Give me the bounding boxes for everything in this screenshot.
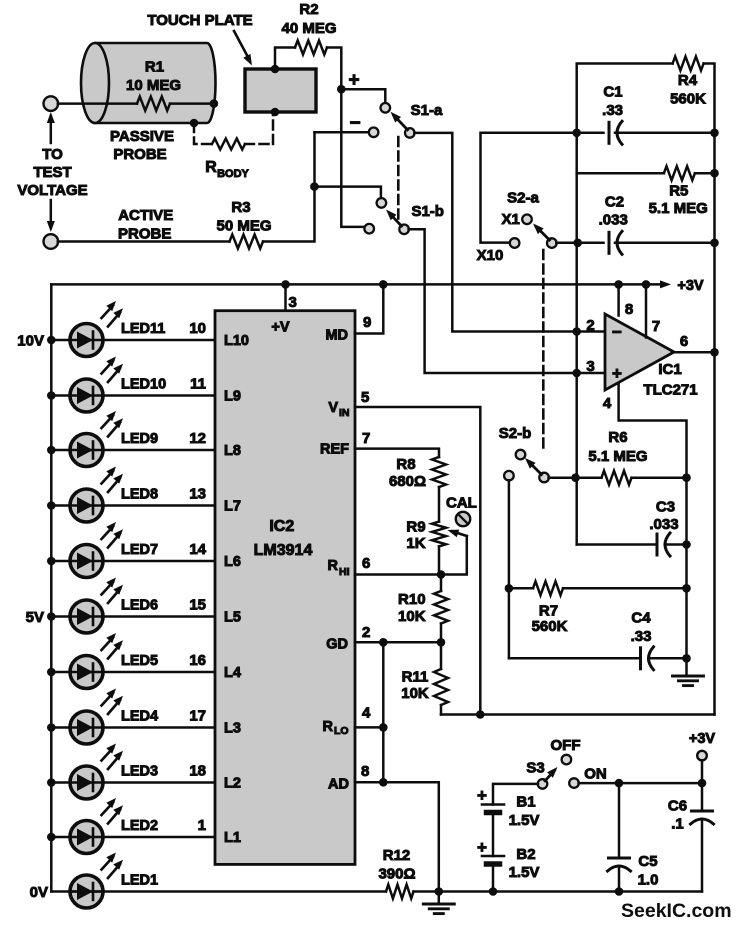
svg-text:R7: R7 <box>539 603 558 620</box>
svg-text:R5: R5 <box>669 183 688 200</box>
svg-text:11: 11 <box>190 376 206 393</box>
LED LED10 <box>70 379 103 412</box>
svg-text:+: + <box>348 70 359 91</box>
switch S1-a contacts <box>381 103 391 113</box>
R9 wiper arrow <box>442 536 467 575</box>
wire feedback bottom <box>441 713 715 716</box>
wire R8 to R9 <box>438 487 441 522</box>
wire B2 to ground rail <box>492 864 495 892</box>
svg-text:L4: L4 <box>224 665 241 681</box>
wire X10 riser to C1 <box>481 133 604 243</box>
svg-text:C5: C5 <box>638 853 657 870</box>
switch S2-b contact top <box>516 450 526 460</box>
node bus LED4 <box>47 723 56 732</box>
battery B2 <box>482 855 504 858</box>
wire LED8 row <box>51 504 215 507</box>
switch S1-b wiper arrow <box>390 213 402 226</box>
node pin2 <box>572 327 581 336</box>
svg-text:8: 8 <box>625 301 633 318</box>
wire C4 right <box>650 657 687 660</box>
svg-text:LED4: LED4 <box>121 709 158 725</box>
node R7 right <box>682 584 691 593</box>
svg-text:C1: C1 <box>603 84 622 101</box>
CAL knob <box>456 512 470 526</box>
wire R11 to feedback <box>440 705 443 715</box>
svg-text:LED9: LED9 <box>121 431 158 447</box>
node feedback VIN <box>476 710 485 719</box>
svg-text:GD: GD <box>326 637 348 653</box>
resistor R3 zigzag <box>230 235 264 249</box>
IC2 pin 8 AD wire <box>355 782 439 891</box>
node rail pin7 <box>642 280 651 289</box>
IC U2 LM3914 body <box>215 311 355 865</box>
switch S3 wiper arrow <box>545 771 555 781</box>
svg-text:10K: 10K <box>401 685 429 702</box>
wire S3 to battery B1 <box>493 784 538 805</box>
wire LED3 row <box>51 781 215 784</box>
LED LED2 <box>70 821 103 854</box>
node touch plate top <box>271 65 280 74</box>
terminal passive probe input <box>44 96 59 111</box>
svg-text:+: + <box>612 364 622 383</box>
node bus LED2 <box>47 833 56 842</box>
wire C1 right <box>615 132 715 135</box>
switch S2-a contact X1 <box>522 215 532 225</box>
wire LED10 row <box>51 394 215 397</box>
svg-text:10: 10 <box>189 320 206 337</box>
dashed gang link S2 <box>542 250 545 451</box>
svg-text:680Ω: 680Ω <box>389 473 426 490</box>
resistor R6 zigzag <box>602 471 632 485</box>
svg-text:50 MEG: 50 MEG <box>216 218 271 235</box>
switch S2-a contact X10 <box>510 238 520 248</box>
svg-text:R1: R1 <box>145 59 164 76</box>
wire R5 left <box>577 172 664 175</box>
svg-text:LM3914: LM3914 <box>254 542 313 559</box>
wire LED11 row <box>51 339 215 342</box>
svg-text:ON: ON <box>584 766 607 783</box>
wire GD to AD riser <box>382 642 385 782</box>
switch S1-a wiper arrow <box>394 116 408 130</box>
svg-text:LED8: LED8 <box>121 487 158 503</box>
wire inverting net riser <box>575 133 578 545</box>
svg-text:L5: L5 <box>224 610 241 626</box>
svg-text:LED10: LED10 <box>121 377 166 393</box>
wire S2-a wiper to C2 <box>556 242 603 245</box>
svg-text:SeekIC.com: SeekIC.com <box>621 900 732 922</box>
svg-text:S3: S3 <box>526 760 544 777</box>
svg-text:1.5V: 1.5V <box>509 812 540 829</box>
wire C2 right <box>615 242 715 245</box>
svg-text:TLC271: TLC271 <box>643 382 697 399</box>
LED LED11 <box>70 324 103 357</box>
svg-text:L2: L2 <box>224 776 241 792</box>
ground near C4 <box>685 658 688 676</box>
svg-text:TOUCH PLATE: TOUCH PLATE <box>147 12 252 29</box>
wire C3 left <box>577 543 655 546</box>
wire C6 bottom <box>701 819 704 892</box>
svg-text:L7: L7 <box>224 499 241 515</box>
LED LED4 <box>70 711 103 744</box>
wire touch plate to R2 <box>275 48 295 70</box>
wire R10 to GD junction <box>440 624 443 643</box>
svg-text:R: R <box>328 558 339 574</box>
wire ON to +3V column <box>579 782 703 785</box>
node C3 right <box>682 540 691 549</box>
svg-text:1.5V: 1.5V <box>509 864 540 881</box>
svg-text:13: 13 <box>189 486 206 503</box>
svg-text:R6: R6 <box>608 429 627 446</box>
wire LED9 row <box>51 449 215 452</box>
LED LED7 <box>70 545 103 578</box>
node bus LED5 <box>47 668 56 677</box>
switch S2-a wiper contact <box>547 238 557 248</box>
resistor R2 zigzag <box>295 41 327 55</box>
node rail pin3 <box>281 280 290 289</box>
wire B1 to B2 <box>492 813 495 857</box>
svg-text:C3: C3 <box>656 499 675 516</box>
svg-text:+3V: +3V <box>689 731 716 747</box>
node active junction <box>310 182 319 191</box>
capacitor C3 <box>656 534 659 555</box>
svg-text:X10: X10 <box>477 247 504 264</box>
svg-text:+3V: +3V <box>677 278 704 294</box>
svg-text:0V: 0V <box>30 884 48 901</box>
resistor R1 zigzag <box>137 97 170 111</box>
svg-text:C4: C4 <box>631 610 651 627</box>
node bus LED8 <box>47 501 56 510</box>
wire R4 branch <box>577 64 673 133</box>
wire R1 to probe tip <box>170 102 214 105</box>
node GD riser <box>379 638 388 647</box>
svg-text:7: 7 <box>362 430 370 447</box>
IC1 pin 8 wire <box>617 284 620 315</box>
resistor R12 zigzag <box>386 885 414 899</box>
switch S3 wiper contact <box>538 779 548 789</box>
dashed gang link S1 <box>397 137 400 221</box>
wire active junction to S1-b top contact <box>315 187 381 199</box>
resistor R8 zigzag <box>432 457 446 487</box>
node RLO <box>379 723 388 732</box>
cylinder passive probe body R1 <box>95 43 216 123</box>
wire C3 right <box>666 543 687 546</box>
svg-text:40 MEG: 40 MEG <box>281 20 336 37</box>
node C2 junction <box>573 239 582 248</box>
svg-text:4: 4 <box>603 395 612 412</box>
svg-text:3: 3 <box>289 294 297 311</box>
svg-text:LED3: LED3 <box>121 764 158 780</box>
svg-text:6: 6 <box>680 333 688 350</box>
svg-text:−: − <box>612 323 622 342</box>
svg-text:1K: 1K <box>406 535 425 552</box>
wire LED6 row <box>51 615 215 618</box>
resistor R11 zigzag <box>434 669 448 705</box>
wire C6 column <box>701 783 704 811</box>
svg-text:R: R <box>205 159 217 176</box>
wire R4 right <box>704 64 715 133</box>
svg-text:MD: MD <box>325 328 348 344</box>
svg-text:2: 2 <box>362 624 370 641</box>
svg-text:−: − <box>349 113 360 134</box>
wire +V rail <box>51 283 646 286</box>
svg-text:1: 1 <box>198 817 206 834</box>
svg-text:PASSIVE: PASSIVE <box>110 128 174 145</box>
svg-text:R2: R2 <box>299 1 318 18</box>
svg-text:+V: +V <box>271 320 289 336</box>
node touch plate bottom <box>271 108 280 117</box>
wire S1-a output to IC1 pin 2 <box>414 133 605 332</box>
node +3V junction <box>698 779 707 788</box>
+3V arrow top <box>646 283 663 286</box>
wire active probe to R3 <box>58 240 230 243</box>
svg-text:+: + <box>477 786 487 805</box>
svg-text:ACTIVE: ACTIVE <box>118 207 173 224</box>
svg-text:14: 14 <box>189 541 206 558</box>
svg-text:R8: R8 <box>396 456 415 473</box>
node bus LED7 <box>47 557 56 566</box>
svg-text:R10: R10 <box>398 591 426 608</box>
svg-text:PROBE: PROBE <box>118 226 171 243</box>
node rail MD <box>379 280 388 289</box>
resistor R5 zigzag <box>664 166 695 180</box>
svg-text:R3: R3 <box>231 199 250 216</box>
wire minus to S1-a left contact <box>315 131 369 134</box>
node C5 top <box>615 779 624 788</box>
svg-text:R9: R9 <box>406 519 425 536</box>
wire R3 to minus riser <box>263 132 315 241</box>
IC2 pin 5 VIN wire <box>355 407 480 715</box>
wire LED2 row <box>51 836 215 839</box>
resistor R10 zigzag <box>434 591 448 624</box>
svg-text:LO: LO <box>334 725 349 737</box>
svg-text:560K: 560K <box>532 618 568 635</box>
node rail pin8 <box>614 280 623 289</box>
svg-text:LED1: LED1 <box>121 873 158 889</box>
svg-text:5.1 MEG: 5.1 MEG <box>588 448 647 465</box>
svg-text:R11: R11 <box>402 669 429 686</box>
svg-text:TEST: TEST <box>33 164 71 181</box>
svg-text:R4: R4 <box>678 72 698 89</box>
LED LED1 <box>70 875 103 908</box>
touch plate <box>245 69 316 112</box>
label TO TEST VOLTAGE with arrows <box>50 116 53 143</box>
svg-text:7: 7 <box>652 318 660 335</box>
wire R9 to RHI junction <box>438 546 441 574</box>
node battery bottom <box>489 887 498 896</box>
node R6 left <box>571 473 580 482</box>
wire R11 top <box>440 642 443 669</box>
svg-text:R12: R12 <box>383 847 411 864</box>
node bus LED9 <box>47 446 56 455</box>
svg-text:5: 5 <box>361 389 369 406</box>
svg-text:IC2: IC2 <box>269 518 294 535</box>
svg-text:LED11: LED11 <box>121 321 165 337</box>
svg-text:PROBE: PROBE <box>113 146 166 163</box>
terminal +3V bottom <box>697 751 707 761</box>
node RHI junction <box>437 570 446 579</box>
node bus LED3 <box>47 778 56 787</box>
svg-text:L8: L8 <box>224 443 241 459</box>
switch S3 contact ON <box>569 778 579 788</box>
node C4 right <box>682 654 691 663</box>
wire R2 to plus node <box>327 48 341 90</box>
node C2 right <box>710 239 719 248</box>
svg-text:S1-a: S1-a <box>411 102 443 119</box>
node probe shell <box>190 119 199 128</box>
svg-text:5.1 MEG: 5.1 MEG <box>649 200 708 217</box>
capacitor C4 <box>639 648 642 669</box>
ground main <box>438 892 441 905</box>
node C5 bottom <box>615 887 624 896</box>
svg-text:4: 4 <box>362 705 371 722</box>
svg-text:AD: AD <box>328 777 349 793</box>
wire LED1 row 0V <box>51 890 386 893</box>
wire R6 right <box>632 476 687 479</box>
IC2 pin 4 RLO wire <box>355 726 383 729</box>
IC1 pin 7 wire <box>645 284 648 337</box>
switch S3 contact OFF <box>562 755 572 765</box>
wire LED5 row <box>51 671 215 674</box>
wire RHI junction to R10 <box>440 575 443 592</box>
LED LED5 <box>70 656 103 689</box>
svg-text:12: 12 <box>189 430 206 447</box>
wire R5 right <box>695 172 715 175</box>
switch S2-b contact left <box>504 471 514 481</box>
IC1 pin 4 wire <box>619 383 687 478</box>
node C1 left <box>572 129 581 138</box>
node probe tip <box>210 99 219 108</box>
wire R7 right <box>563 587 687 590</box>
node pin6 rail <box>710 348 719 357</box>
wire bottom 0V <box>414 890 703 893</box>
svg-text:IN: IN <box>339 407 350 419</box>
switch S2-b wiper contact <box>539 473 549 483</box>
wire plus node to S1-a top contact <box>341 89 385 103</box>
svg-text:3: 3 <box>586 358 594 375</box>
LED LED3 <box>70 766 103 799</box>
LED LED9 <box>70 434 103 467</box>
wire C5 column <box>618 783 621 858</box>
svg-text:6: 6 <box>362 555 370 572</box>
wire plus to S1-b left contact <box>341 89 365 229</box>
svg-text:S2-a: S2-a <box>507 190 539 207</box>
svg-text:C2: C2 <box>605 194 624 211</box>
svg-text:OFF: OFF <box>551 737 581 754</box>
IC2 pin 9 MD wire <box>355 284 383 333</box>
svg-text:.033: .033 <box>599 212 628 229</box>
svg-text:S2-b: S2-b <box>499 425 532 442</box>
capacitor C2 <box>608 232 611 253</box>
svg-text:B2: B2 <box>516 846 535 863</box>
svg-text:18: 18 <box>189 763 206 780</box>
switch S1-b contacts <box>377 198 387 208</box>
svg-text:8: 8 <box>361 763 369 780</box>
svg-text:C6: C6 <box>668 798 687 815</box>
resistor R7 zigzag <box>533 581 563 595</box>
svg-text:.33: .33 <box>631 628 652 645</box>
svg-text:L6: L6 <box>224 554 241 570</box>
svg-text:LED5: LED5 <box>121 653 158 669</box>
svg-text:5V: 5V <box>26 609 44 626</box>
wire C4 left <box>509 657 639 660</box>
node R5 right <box>710 169 719 178</box>
svg-text:CAL: CAL <box>446 495 477 512</box>
potentiometer R9 zigzag <box>432 522 446 547</box>
switch S2-b wiper arrow <box>529 462 542 475</box>
svg-text:.1: .1 <box>671 816 684 833</box>
svg-text:17: 17 <box>189 708 206 725</box>
node AD <box>379 778 388 787</box>
svg-text:2: 2 <box>586 317 594 334</box>
terminal active probe input <box>44 234 59 249</box>
svg-text:.33: .33 <box>602 102 623 119</box>
svg-text:IC1: IC1 <box>658 361 681 378</box>
svg-text:L1: L1 <box>224 830 241 846</box>
wire right rail <box>713 133 716 715</box>
svg-text:1.0: 1.0 <box>638 872 659 889</box>
wire LED7 row <box>51 560 215 563</box>
wire pin4 column <box>685 478 688 659</box>
svg-text:LED2: LED2 <box>121 818 158 834</box>
svg-text:B1: B1 <box>516 794 535 811</box>
node R6 right <box>682 473 691 482</box>
IC2 pin 7 REF wire <box>355 449 439 457</box>
IC2 pin 6 RHI wire <box>355 573 441 576</box>
capacitor C6 <box>692 810 713 813</box>
svg-text:LED7: LED7 <box>121 542 158 558</box>
svg-text:16: 16 <box>189 652 206 669</box>
node R7 left <box>505 584 514 593</box>
svg-text:560K: 560K <box>670 91 706 108</box>
wire S1-b output to IC1 pin 3 <box>409 229 605 373</box>
svg-text:10V: 10V <box>17 333 44 350</box>
node bus LED10 <box>47 391 56 400</box>
svg-text:REF: REF <box>320 442 349 458</box>
wire S2-b left column <box>508 480 511 658</box>
svg-text:VOLTAGE: VOLTAGE <box>17 182 87 199</box>
svg-text:BODY: BODY <box>217 168 249 180</box>
resistor R4 zigzag <box>673 57 704 71</box>
battery B1 <box>482 803 504 806</box>
switch S2-a wiper arrow <box>537 227 550 240</box>
svg-text:TO: TO <box>42 146 63 163</box>
op-amp U1 TLC271 <box>605 314 674 390</box>
svg-text:390Ω: 390Ω <box>378 866 415 883</box>
svg-text:LED6: LED6 <box>121 598 158 614</box>
node plus junction <box>337 85 346 94</box>
node bus LED11 <box>47 336 56 345</box>
IC2 pin 2 GD wire <box>355 641 441 644</box>
node GD R10 R11 <box>437 638 446 647</box>
wire C5 bottom <box>618 866 621 892</box>
wire LED anode bus <box>50 284 53 891</box>
wire +3V stub <box>701 760 704 783</box>
IC2 pin 3 stub <box>284 284 287 310</box>
svg-text:15: 15 <box>189 597 206 614</box>
node R12 ground junction <box>435 887 444 896</box>
capacitor C1 <box>608 122 611 143</box>
svg-text:L10: L10 <box>224 333 249 349</box>
wire probe input to R1 <box>58 102 137 105</box>
svg-text:9: 9 <box>363 314 371 331</box>
capacitor C5 <box>609 857 630 860</box>
LED LED8 <box>70 489 103 522</box>
svg-text:10 MEG: 10 MEG <box>126 77 181 94</box>
node pin3 <box>572 369 581 378</box>
svg-text:L3: L3 <box>224 721 241 737</box>
svg-text:L9: L9 <box>224 389 241 405</box>
node bus LED6 <box>47 612 56 621</box>
